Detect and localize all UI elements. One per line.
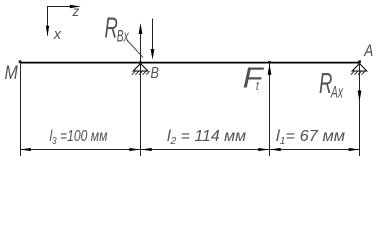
dimension text l3 = 100 mm: [50, 128, 108, 147]
moment label M: [5, 62, 18, 84]
R_Bx label: [105, 12, 130, 45]
force F_t arrow (up): [268, 61, 272, 156]
R_Ax label: [319, 68, 344, 101]
x axis label: [53, 27, 62, 43]
svg-text:l2 = 114 мм: l2 = 114 мм: [167, 128, 246, 147]
dim arrow left end (points left): [20, 148, 31, 151]
support A triangle: [352, 64, 367, 72]
svg-text:l3 =100 мм: l3 =100 мм: [50, 128, 108, 147]
extension line at A: [359, 64, 361, 157]
extension line at B: [140, 64, 142, 157]
z-axis arrowhead: [70, 5, 81, 8]
z axis label: [72, 4, 80, 19]
dimension text l2 = 114 mm: [167, 128, 246, 147]
F_t label: [243, 61, 265, 94]
force R_Bx arrow (up) at B: [139, 23, 143, 62]
beam left end dot: [19, 60, 22, 63]
svg-text:A: A: [363, 42, 373, 61]
dim arrows at B extension: [129, 148, 151, 151]
applied force arrow (down) right of B: [151, 19, 155, 60]
node A label: [363, 42, 373, 61]
support B hatching: [132, 71, 150, 75]
svg-text:l1= 67 мм: l1= 67 мм: [276, 128, 345, 147]
svg-text:B: B: [151, 65, 159, 82]
dimension line: [20, 149, 360, 151]
coordinate axes corner: [48, 7, 80, 36]
dim arrow right end (points right): [349, 148, 360, 151]
R_Bx leader line: [127, 40, 144, 58]
support A hatching: [351, 71, 365, 75]
svg-text:F: F: [243, 61, 265, 94]
dimension text l1 = 67 mm: [276, 128, 345, 147]
svg-text:z: z: [72, 4, 80, 19]
svg-text:x: x: [53, 27, 62, 43]
beam right end dot: [358, 60, 361, 63]
svg-text:Ax: Ax: [330, 83, 344, 101]
node B label: [151, 65, 159, 82]
support B triangle: [133, 61, 148, 71]
svg-text:Bx: Bx: [117, 27, 130, 45]
svg-text:R: R: [105, 12, 118, 44]
extension line at M end: [20, 62, 22, 156]
force R_Ax arrow (down) at A: [358, 91, 362, 102]
svg-text:M: M: [5, 62, 18, 84]
x-axis arrowhead: [46, 26, 49, 36]
dim arrows at F_t extension: [258, 148, 280, 151]
beam: [20, 62, 360, 64]
